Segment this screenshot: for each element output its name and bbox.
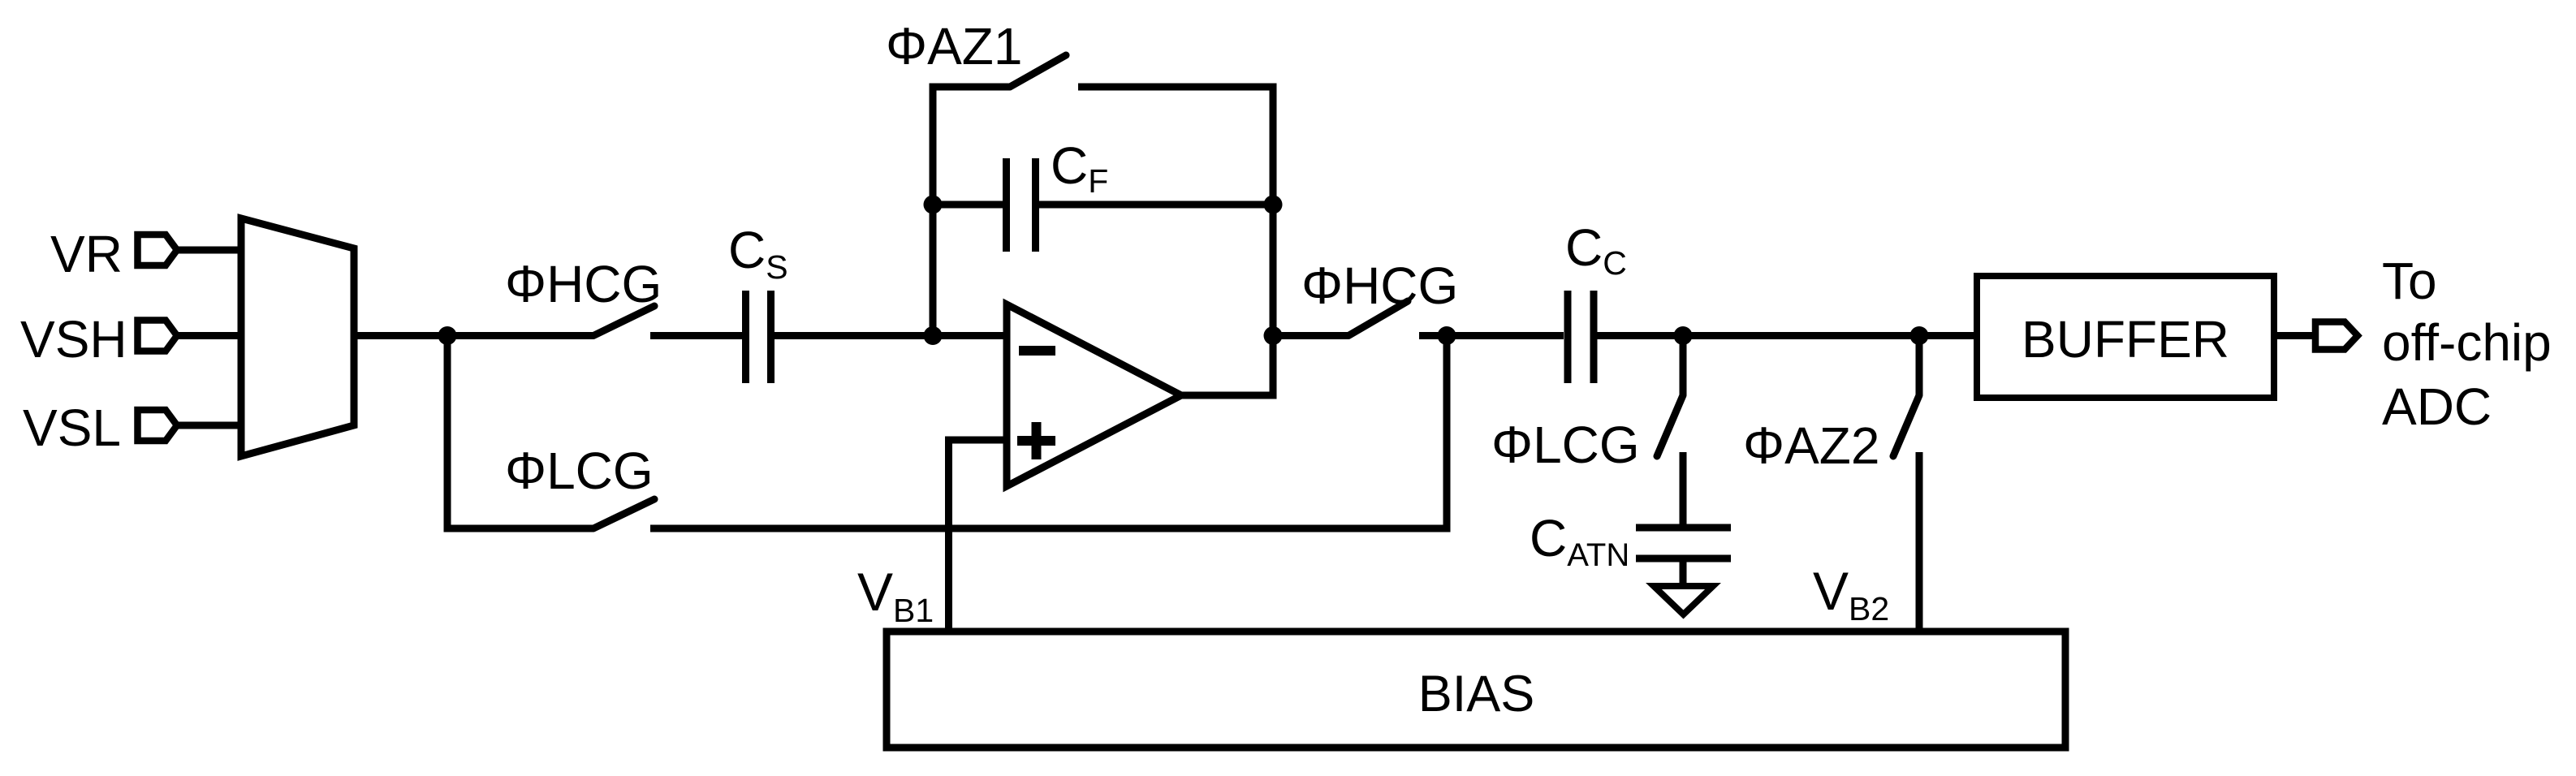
- terminal output: [2315, 322, 2358, 350]
- op-amp minus sign: [1019, 346, 1055, 356]
- svg-text:BUFFER: BUFFER: [2022, 310, 2229, 369]
- svg-text:off-chip: off-chip: [2382, 313, 2552, 372]
- wire buffer output: [2274, 332, 2312, 339]
- svg-text:CATN: CATN: [1530, 509, 1629, 573]
- switch PAZ2 top wire: [1916, 336, 1923, 396]
- capacitor CC: [1564, 291, 1572, 383]
- svg-text:ΦLCG: ΦLCG: [1491, 416, 1640, 474]
- svg-text:ΦAZ1: ΦAZ1: [886, 17, 1022, 75]
- wire VSH to mux: [177, 332, 241, 339]
- node feedback left: [924, 196, 943, 214]
- node A junction: [438, 326, 457, 345]
- svg-text:BIAS: BIAS: [1418, 666, 1535, 722]
- node D: [1910, 326, 1929, 345]
- svg-text:VB2: VB2: [1813, 561, 1889, 627]
- svg-text:To: To: [2382, 252, 2437, 310]
- op-amp U2: [1007, 304, 1181, 486]
- switch PLCG1 lever: [593, 499, 654, 528]
- node feedback right: [1264, 196, 1283, 214]
- capacitor CATN: [1636, 524, 1731, 532]
- switch PAZ2 bottom wire to BIAS: [1916, 452, 1923, 632]
- wire feedback left to CF: [933, 201, 1003, 209]
- node B: [1438, 326, 1456, 345]
- wire node B down to LCG return: [1443, 336, 1451, 532]
- svg-text:VR: VR: [50, 225, 123, 283]
- svg-text:VSL: VSL: [23, 399, 121, 457]
- switch PAZ1 lever: [1010, 55, 1066, 87]
- wire VSL to mux: [177, 422, 241, 429]
- mux U1: [241, 218, 354, 456]
- svg-text:VB1: VB1: [857, 562, 934, 629]
- wire output to switch PHCG2: [1273, 332, 1348, 339]
- switch PHCG1 lever: [593, 306, 654, 336]
- node inverting input: [924, 326, 943, 345]
- terminal VSL: [138, 410, 178, 441]
- terminal VSH: [138, 321, 178, 351]
- wire plus input: [949, 440, 1008, 632]
- wire VR to mux: [177, 247, 241, 254]
- buffer box: [1977, 276, 2274, 398]
- capacitor CF: [1003, 158, 1010, 252]
- op-amp plus sign: [1017, 436, 1055, 446]
- svg-text:CS: CS: [728, 221, 788, 286]
- svg-text:ΦHCG: ΦHCG: [1301, 257, 1458, 315]
- svg-text:ΦAZ2: ΦAZ2: [1743, 416, 1879, 475]
- switch PHCG2 lever: [1348, 301, 1408, 336]
- wire CATN to ground: [1680, 562, 1687, 586]
- node C: [1674, 326, 1693, 345]
- capacitor CS: [742, 291, 749, 383]
- svg-text:CF: CF: [1051, 136, 1108, 200]
- switch PAZ1 right wire and output vertical: [1078, 87, 1273, 395]
- switch PLCG2 bottom wire: [1680, 452, 1687, 524]
- wire PHCG2 to CC: [1419, 332, 1564, 339]
- bias box: [887, 632, 2065, 748]
- switch PLCG2 lever: [1657, 395, 1683, 456]
- wire PLCG1 return: [650, 525, 1451, 532]
- terminal VR: [138, 235, 178, 265]
- wire node A down: [447, 336, 593, 529]
- wire PHCG1 to CS: [650, 332, 742, 339]
- switch PLCG2 top wire: [1680, 336, 1687, 396]
- svg-text:ΦHCG: ΦHCG: [505, 255, 662, 313]
- wire mux output to switch PHCG1: [354, 332, 593, 339]
- ground: [1654, 586, 1713, 614]
- svg-text:VSH: VSH: [20, 310, 127, 369]
- svg-text:CC: CC: [1565, 218, 1627, 282]
- wire CC to buffer: [1597, 332, 1977, 339]
- switch PAZ1 left wire: [930, 84, 1011, 91]
- svg-text:ΦLCG: ΦLCG: [505, 442, 654, 500]
- wire CF to feedback right: [1039, 201, 1273, 209]
- svg-text:ADC: ADC: [2382, 377, 2492, 436]
- wire inverting node up to feedback: [930, 84, 937, 336]
- switch PAZ2 lever: [1893, 395, 1919, 456]
- node op-amp output: [1264, 326, 1283, 345]
- wire CS to inverting node: [775, 332, 1007, 339]
